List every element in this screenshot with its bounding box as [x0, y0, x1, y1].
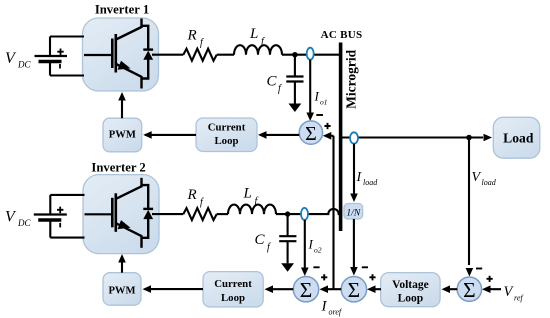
svg-text:Voltage: Voltage: [392, 279, 429, 291]
diode D2 triangle: [143, 210, 153, 219]
node junction dot V_load tap: [466, 135, 472, 141]
diode D1 link and cathode line: [142, 26, 149, 79]
arrowhead I_o2 into S3: [301, 268, 309, 277]
wire riser to S1 input: [330, 135, 334, 137]
svg-text:load: load: [363, 178, 378, 187]
svg-text:Inverter 1: Inverter 1: [95, 3, 149, 17]
wire I_load: [353, 144, 355, 195]
wire 1/N to S2: [353, 219, 355, 268]
arrowhead I_o1 into S1: [306, 113, 314, 122]
svg-text:Inverter 2: Inverter 2: [91, 161, 145, 175]
svg-text:load: load: [482, 178, 497, 187]
svg-text:1/N: 1/N: [346, 207, 360, 218]
block Current Loop 1: [196, 118, 257, 152]
block Current Loop 2: [203, 272, 263, 307]
diode D1 triangle: [143, 51, 153, 60]
AC bus bar: [339, 43, 343, 232]
summing junction S2: [341, 277, 366, 302]
svg-text:PWM: PWM: [108, 286, 135, 297]
plus sign at S4 right: [487, 276, 493, 282]
resistor Rf2: [183, 208, 216, 220]
svg-text:DC: DC: [17, 60, 31, 70]
transistor Q1 emitter arrow: [118, 61, 131, 70]
node N2 junction dot: [285, 211, 290, 216]
wire S4 to Voltage Loop: [444, 288, 457, 290]
summing junction S1: [299, 121, 322, 144]
transistor Q1 emitter diagonal: [116, 64, 142, 77]
arrowhead into inverter2: [118, 254, 126, 263]
battery V_DC2 plus sign: [57, 207, 63, 214]
transistor Q1 gate bar: [111, 39, 114, 69]
summing junction S4: [457, 277, 481, 301]
arrowhead V_ref: [482, 285, 491, 293]
block Load: [493, 117, 540, 158]
current sensor CT1: [307, 48, 314, 60]
arrowhead V_load into S4: [466, 268, 474, 277]
wire V_ref into S4: [485, 288, 502, 290]
transistor Q1 body bar: [115, 34, 118, 73]
wire Current Loop 1 to PWM1: [145, 134, 196, 136]
battery V_DC1 plates: [35, 55, 68, 57]
wire Rf2 to Lf2: [217, 213, 228, 215]
arrowhead into Load: [484, 134, 493, 142]
inverter U2 block: [83, 175, 159, 254]
block PWM2: [103, 273, 141, 306]
svg-text:Microgrid: Microgrid: [344, 49, 359, 108]
svg-text:R: R: [187, 187, 197, 203]
transistor Q2 emitter diagonal: [116, 223, 142, 236]
minus sign at S1 top: [316, 114, 323, 116]
wire PWM1 to inverter1: [121, 99, 123, 118]
svg-text:PWM: PWM: [109, 130, 136, 141]
svg-text:V: V: [472, 170, 482, 185]
wire I_o1 measurement: [309, 60, 311, 113]
arrowhead into S2: [350, 267, 358, 276]
arrowhead into PWM2: [143, 285, 152, 293]
transistor Q2 collector diagonal: [116, 186, 142, 199]
svg-text:Loop: Loop: [221, 292, 245, 304]
svg-text:o1: o1: [320, 98, 328, 107]
svg-text:L: L: [243, 186, 252, 202]
svg-text:oref: oref: [329, 308, 343, 317]
svg-text:Σ: Σ: [305, 123, 317, 145]
svg-text:Loop: Loop: [398, 292, 424, 304]
svg-text:Σ: Σ: [348, 278, 361, 302]
resistor Rf1: [183, 49, 216, 61]
transistor Q2 gate lead: [85, 213, 113, 215]
current sensor CT3: [301, 208, 308, 220]
svg-text:R: R: [187, 28, 197, 44]
plus sign at S1 right: [324, 123, 330, 129]
wire Rf1 to Lf1: [217, 54, 234, 56]
plus sign at S2 right: [369, 274, 375, 280]
capacitor Cf2 lower lead: [287, 241, 289, 263]
battery V_DC2 minus sign: [59, 223, 61, 228]
inverter U1 block: [83, 18, 159, 91]
svg-text:Σ: Σ: [463, 278, 476, 302]
wire inverter1 output: [152, 54, 183, 56]
svg-text:I: I: [308, 237, 314, 252]
minus sign at S3 top: [313, 266, 319, 268]
arrowhead into Current Loop 1: [258, 131, 267, 139]
svg-text:o2: o2: [314, 246, 322, 255]
battery V_DC1 plus sign: [57, 49, 63, 56]
arrowhead into S3: [320, 285, 329, 293]
svg-text:Loop: Loop: [214, 135, 238, 147]
wire V_load: [468, 138, 470, 266]
transistor Q1 gate lead: [84, 54, 112, 56]
capacitor Cf1 lower lead: [294, 82, 296, 104]
battery V_DC2 plates: [34, 213, 67, 215]
arrowhead into 1/N: [350, 194, 358, 203]
wire S3 to Current Loop 2: [267, 288, 293, 290]
transistor Q2 emitter arrow: [118, 220, 131, 229]
transistor Q2 gate bar: [111, 198, 114, 228]
svg-text:C: C: [267, 74, 278, 90]
capacitor Cf2 plates: [279, 236, 296, 241]
wire S1 to Current Loop 1: [260, 134, 299, 136]
arrowhead into S2 right: [367, 285, 376, 293]
wire S2 output I_oref: [322, 288, 341, 290]
arrowhead into Current Loop 2: [265, 285, 274, 293]
transistor Q1 emitter lead: [140, 76, 142, 89]
svg-text:Load: Load: [503, 131, 534, 146]
wire Current Loop 2 to PWM2: [145, 288, 203, 290]
capacitor Cf1 lead: [294, 55, 296, 77]
inductor Lf1: [234, 45, 282, 55]
wire Lf2 to bus with hop over riser: [276, 209, 340, 214]
battery V_DC1 minus sign: [59, 64, 61, 69]
svg-text:Current: Current: [208, 122, 246, 134]
svg-text:I: I: [321, 299, 328, 315]
arrowhead into Voltage Loop: [442, 285, 451, 293]
ground G2: [281, 263, 294, 272]
plus sign at S3 right: [321, 274, 327, 280]
svg-text:Current: Current: [214, 278, 252, 290]
svg-text:C: C: [255, 232, 266, 248]
transistor Q2 body bar: [115, 193, 118, 232]
wire inverter2 output: [152, 213, 183, 215]
transistor Q1 collector diagonal: [116, 27, 142, 40]
ground G1: [289, 104, 302, 113]
battery V_DC1 wires: [50, 37, 84, 76]
svg-text:DC: DC: [17, 218, 31, 228]
minus sign at S4 top: [476, 268, 482, 270]
diode D2 link and cathode line: [142, 185, 149, 238]
transistor Q2 emitter lead: [140, 235, 142, 248]
svg-text:AC BUS: AC BUS: [321, 29, 363, 41]
block PWM1: [103, 118, 142, 152]
node N1 junction dot: [292, 52, 297, 57]
battery V_DC2 wires: [50, 195, 84, 238]
capacitor Cf2 lead: [287, 214, 289, 236]
block Voltage Loop: [381, 273, 440, 307]
transistor Q2 collector lead: [140, 178, 142, 188]
arrowhead into PWM1: [143, 131, 152, 139]
wire PWM2 to inverter2: [121, 260, 123, 273]
arrowhead into inverter1: [118, 92, 126, 101]
svg-text:L: L: [249, 26, 258, 42]
wire bus to Load: [342, 136, 483, 138]
summing junction S3: [293, 277, 318, 302]
diode D2 cathode bar: [143, 208, 153, 210]
capacitor Cf1 plates: [286, 77, 303, 82]
diode D1 cathode bar: [143, 48, 153, 50]
current sensor CT2: [350, 132, 358, 143]
wire Lf1 to bus: [282, 54, 339, 56]
wire I_o2 measurement: [304, 220, 306, 269]
wire Voltage Loop to S2: [370, 288, 382, 290]
wire riser I_oref to S1: [332, 136, 334, 289]
svg-text:I: I: [314, 89, 320, 104]
arrowhead into S1 right: [323, 132, 332, 140]
svg-text:Σ: Σ: [300, 278, 313, 302]
inductor Lf2: [228, 205, 276, 215]
block 1/N: [344, 204, 363, 220]
transistor Q1 collector lead: [140, 19, 142, 29]
minus sign at S2 top: [362, 266, 368, 268]
